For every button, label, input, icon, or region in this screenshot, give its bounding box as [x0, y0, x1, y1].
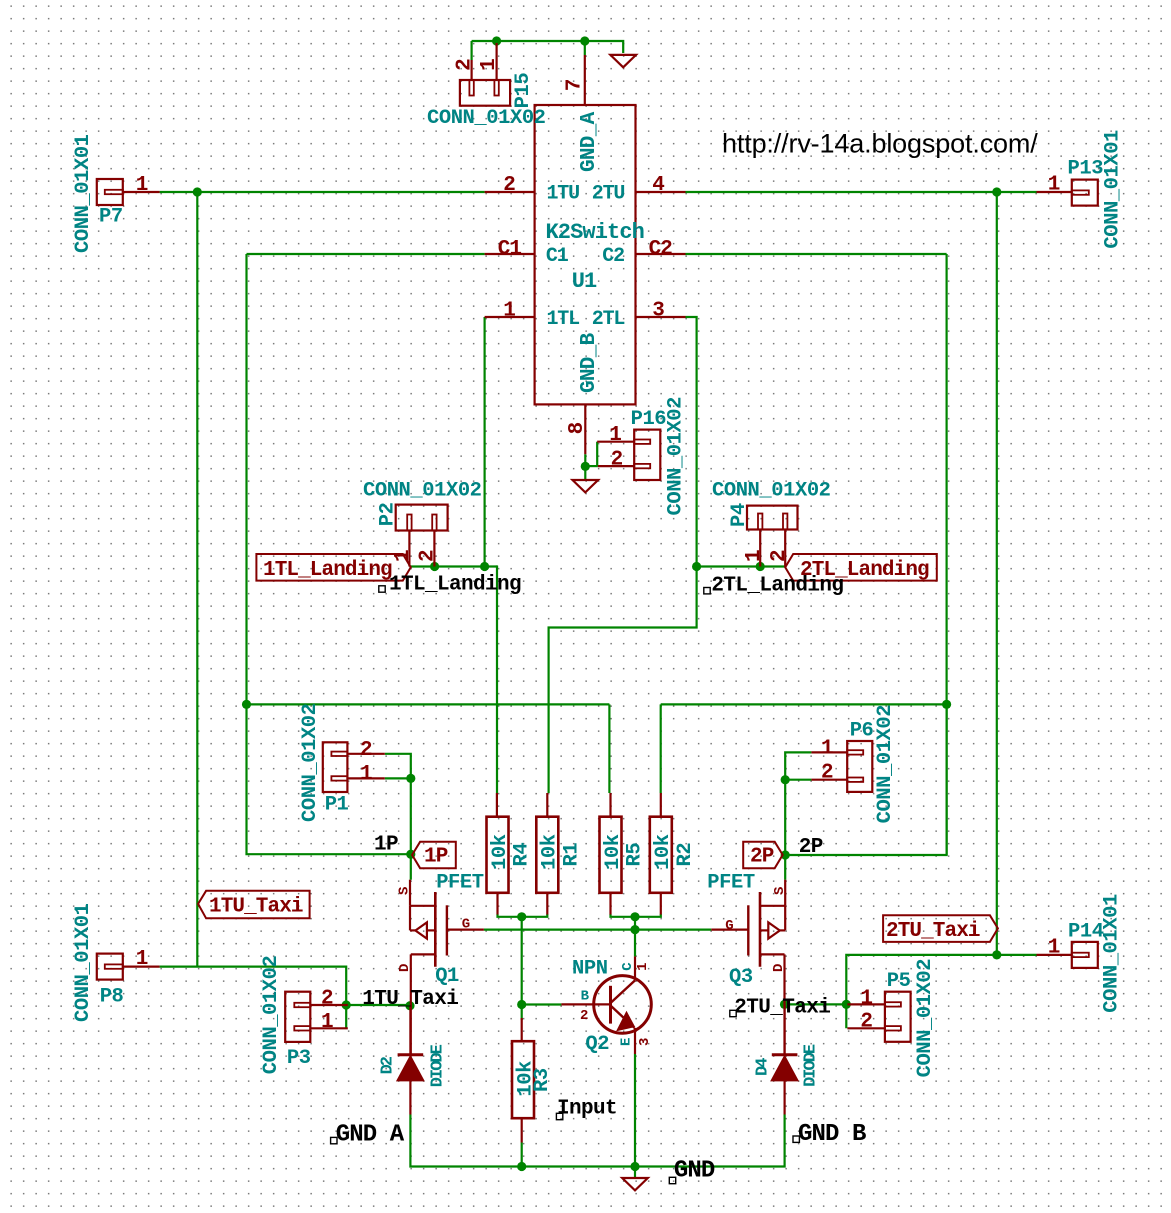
svg-text:Q3: Q3 — [729, 966, 753, 989]
junction 2TL at P4 wire — [692, 562, 701, 571]
wire pin7 stub — [584, 41, 586, 55]
svg-text:Q1: Q1 — [435, 965, 459, 988]
P8 pin 1 line — [123, 965, 160, 967]
wire net 1P horizontal C1-R5 — [247, 703, 610, 705]
svg-text:NPN: NPN — [572, 958, 608, 981]
svg-text:1: 1 — [136, 948, 148, 971]
junction 2TU_Taxi at P5 pin1 — [842, 1000, 851, 1009]
svg-text:http://rv-14a.blogspot.com/: http://rv-14a.blogspot.com/ — [722, 129, 1038, 159]
connector P6 body — [847, 741, 872, 792]
global label 2P — [743, 842, 783, 868]
svg-text:CONN_01X01: CONN_01X01 — [1102, 130, 1125, 249]
wire net C1 horizontal — [247, 253, 485, 255]
resistor R4 — [487, 817, 509, 893]
junction 1TU at P7 branch — [193, 187, 202, 196]
svg-text:2TU_Taxi: 2TU_Taxi — [734, 997, 830, 1020]
svg-text:CONN_01X01: CONN_01X01 — [72, 903, 95, 1022]
svg-text:CONN_01X02: CONN_01X02 — [874, 705, 897, 824]
wire U1 pin8 to ground — [584, 454, 586, 480]
svg-text:10k: 10k — [652, 834, 675, 870]
svg-text:P16: P16 — [631, 408, 667, 431]
svg-text:1P: 1P — [374, 834, 398, 857]
svg-text:1: 1 — [743, 550, 766, 562]
wire net 2P R2 drop — [660, 704, 662, 793]
wire net 1TL down to R4 — [496, 567, 498, 794]
P3 pin 1 line — [310, 1027, 348, 1029]
P3 pin bars — [294, 1003, 310, 1007]
junction 1TU_Taxi at P3 pin2 — [342, 1000, 351, 1009]
connector P8 body — [97, 954, 123, 980]
wire P16 pin1 link — [596, 442, 598, 466]
svg-text:2: 2 — [821, 762, 833, 785]
wire net 2TU vertical — [996, 192, 998, 955]
P1 pin bars — [331, 752, 347, 756]
svg-text:1: 1 — [321, 1011, 333, 1034]
resistor R2 — [650, 817, 672, 893]
svg-text:R4: R4 — [511, 843, 534, 867]
wire net C2 vertical — [945, 254, 947, 855]
svg-text:C2: C2 — [602, 245, 624, 268]
svg-text:1: 1 — [860, 988, 872, 1011]
wire net 1TU_Taxi bottom left — [160, 967, 347, 1029]
U1 pin C1 — [485, 253, 535, 255]
P3 pin 2 line — [310, 1004, 348, 1006]
R1 top lead — [546, 793, 548, 817]
svg-text:1: 1 — [503, 300, 515, 323]
wire top P15 to ground — [472, 41, 624, 53]
P2 pin 2 line — [433, 531, 435, 567]
svg-text:C1: C1 — [498, 238, 522, 261]
svg-text:GND A: GND A — [336, 1122, 405, 1149]
svg-text:D2: D2 — [378, 1056, 397, 1074]
svg-text:1TL: 1TL — [547, 308, 580, 331]
connector P5 body — [885, 992, 911, 1042]
junction P6 pin2 — [781, 775, 790, 784]
svg-text:C2: C2 — [649, 238, 673, 261]
wire net 1P R5 drop — [608, 704, 610, 793]
wire 1TU_Taxi to Q1 drain — [346, 1004, 409, 1006]
junction gate at Q2 collector column — [630, 925, 639, 934]
U1 pin 7 — [584, 55, 586, 105]
svg-text:1TU_Taxi: 1TU_Taxi — [362, 988, 458, 1011]
junction Q3 drain node — [780, 1000, 789, 1009]
svg-text:2: 2 — [580, 1008, 588, 1024]
svg-text:G: G — [462, 916, 470, 932]
svg-text:D: D — [771, 964, 787, 972]
svg-text:2: 2 — [360, 739, 372, 762]
P1 pin 2 line — [347, 753, 384, 755]
svg-text:GND_A: GND_A — [578, 111, 601, 172]
global label 2TL_Landing — [785, 554, 937, 581]
svg-text:DIODE: DIODE — [429, 1044, 448, 1087]
svg-text:GND: GND — [674, 1158, 715, 1185]
P16 pin 1 line — [597, 441, 634, 443]
svg-text:K2Switch: K2Switch — [546, 220, 644, 245]
svg-text:3: 3 — [652, 300, 664, 323]
U1 pin 4 — [636, 191, 686, 193]
svg-text:1: 1 — [635, 963, 651, 971]
wire net 2TU_Taxi top — [846, 955, 1036, 1028]
wire net 2P horizontal R2-C2 — [661, 703, 947, 705]
wire base node to Q2 — [522, 1003, 562, 1005]
connector P3 body — [285, 992, 310, 1042]
wire P6 pin1 link — [785, 752, 811, 879]
P5 pin 1 line — [847, 1003, 885, 1005]
svg-text:2: 2 — [454, 59, 477, 71]
R5 top lead — [609, 793, 611, 817]
svg-text:1: 1 — [136, 174, 148, 197]
wire net C2 horizontal — [686, 253, 947, 255]
junction node 1P — [406, 850, 415, 859]
P4 pin bars — [758, 514, 762, 530]
svg-text:R2: R2 — [674, 843, 697, 867]
transistor Q3 PFET — [711, 880, 785, 1055]
junction P1 pin1 — [406, 774, 415, 783]
junction 1TL at P2 pin2 — [430, 562, 439, 571]
global label 1TL_Landing — [256, 554, 410, 581]
P16 pin bars — [634, 440, 650, 444]
P6 pin 1 line — [811, 751, 847, 753]
connector P7 body — [97, 179, 123, 205]
svg-text:2: 2 — [611, 449, 623, 472]
U1 pin 3 — [636, 316, 686, 318]
P4 pin 1 line — [759, 530, 761, 567]
junction P15 pin1 — [492, 36, 501, 45]
connector P13 body — [1072, 180, 1098, 206]
junction Q1 drain node — [405, 1001, 414, 1010]
svg-text:R3: R3 — [531, 1068, 554, 1092]
svg-text:P14: P14 — [1068, 921, 1104, 944]
ground top — [610, 55, 636, 67]
svg-text:CONN_01X02: CONN_01X02 — [914, 959, 937, 1078]
junction R4R1 mid — [517, 912, 526, 921]
svg-text:3: 3 — [637, 1038, 653, 1046]
svg-text:2TL_Landing: 2TL_Landing — [711, 575, 843, 598]
ground at P16 — [573, 480, 599, 492]
diode D2 — [398, 1006, 424, 1115]
junction node 2P — [781, 850, 790, 859]
wire net 1TL vertical from U1 pin1 — [484, 317, 486, 567]
wire net 2P down-right column — [785, 704, 946, 855]
wire P1 pin1 link — [385, 777, 411, 779]
ground bottom — [622, 1178, 648, 1190]
R3 bottom lead — [521, 1118, 523, 1142]
transistor Q2 NPN — [561, 956, 651, 1054]
op-amp U1 K2Switch body — [535, 105, 636, 404]
global label 1TU_Taxi — [198, 891, 310, 919]
P14 pin 1 line — [1037, 954, 1072, 956]
svg-text:1P: 1P — [424, 846, 448, 869]
svg-text:P6: P6 — [850, 720, 874, 743]
U1 pin 1 — [485, 316, 535, 318]
wire Q2 emitter stub — [634, 1054, 636, 1167]
junction pin7 top — [580, 36, 589, 45]
svg-text:1TU: 1TU — [547, 183, 580, 206]
svg-text:1TU_Taxi: 1TU_Taxi — [209, 896, 303, 919]
P16 pin 2 line — [598, 465, 634, 467]
svg-text:1: 1 — [360, 763, 372, 786]
svg-text:G: G — [725, 918, 733, 934]
svg-text:P1: P1 — [325, 794, 349, 817]
R2 bottom lead — [660, 893, 662, 915]
wire gate bus Q1-Q3 — [484, 928, 711, 930]
svg-text:DIODE: DIODE — [802, 1044, 821, 1087]
junction 2TU at P13 branch — [992, 187, 1001, 196]
junction 1TL at U1 pin1 branch — [480, 562, 489, 571]
resistor R3 — [512, 1041, 534, 1118]
junction base node — [517, 1000, 526, 1009]
junction R5R2 mid — [630, 912, 639, 921]
svg-text:2P: 2P — [750, 846, 774, 869]
svg-text:1: 1 — [478, 59, 501, 71]
svg-text:8: 8 — [566, 422, 589, 434]
junction 2P at C2 column — [942, 700, 951, 709]
svg-text:P2: P2 — [377, 502, 400, 526]
junction 2TL at P4 pin1 — [756, 562, 765, 571]
wire net 1TU from P7 to U1 pin2 — [160, 191, 485, 193]
R3 top lead — [521, 1018, 523, 1041]
svg-text:1: 1 — [821, 738, 833, 761]
wire net 1TU vertical — [196, 192, 198, 967]
R5 bottom lead — [609, 893, 611, 915]
P13 pin 1 line — [1037, 191, 1072, 193]
svg-text:10k: 10k — [602, 834, 625, 870]
R2 top lead — [660, 793, 662, 817]
wire R5R2 to gate bus — [634, 917, 636, 957]
svg-text:P13: P13 — [1068, 158, 1104, 181]
svg-text:R5: R5 — [624, 843, 647, 867]
svg-text:E: E — [619, 1038, 635, 1046]
svg-text:R1: R1 — [560, 843, 583, 867]
svg-text:CONN_01X01: CONN_01X01 — [72, 134, 95, 253]
svg-text:4: 4 — [652, 174, 664, 197]
junction 1P at C1 column — [242, 700, 251, 709]
R4 top lead — [496, 793, 498, 817]
wire net 2TU from U1 pin4 to P13 — [686, 191, 1037, 193]
R4 bottom lead — [496, 893, 498, 915]
svg-text:CONN_01X02: CONN_01X02 — [427, 107, 546, 130]
svg-text:1: 1 — [1048, 174, 1060, 197]
wire R4R1 to base column — [521, 917, 523, 1020]
wire net 2TL from U1 pin3 — [549, 317, 697, 793]
connector P2 body — [396, 505, 448, 531]
wire R5-R2 bottoms — [611, 914, 661, 917]
svg-text:PFET: PFET — [707, 872, 755, 895]
P6 pin 2 line — [811, 779, 847, 781]
svg-text:1: 1 — [609, 424, 621, 447]
svg-text:1TL_Landing: 1TL_Landing — [263, 559, 392, 582]
junction pin8 ground — [581, 462, 590, 471]
resistor R5 — [600, 817, 622, 893]
P7 pin 1 line — [123, 191, 160, 193]
svg-text:10k: 10k — [489, 834, 512, 870]
svg-text:2: 2 — [768, 550, 791, 562]
U1 pin 8 — [584, 404, 586, 454]
svg-text:S: S — [397, 887, 413, 895]
svg-text:P7: P7 — [99, 206, 123, 229]
P5 pin 2 line — [847, 1027, 885, 1029]
connector P14 body — [1072, 942, 1098, 968]
svg-text:Q2: Q2 — [585, 1033, 609, 1056]
connector P15 body — [460, 80, 510, 106]
wire GND rail — [410, 1115, 784, 1167]
P15 pin 2 line — [471, 60, 473, 80]
svg-text:P15: P15 — [512, 73, 535, 109]
wire P15 pin2 stub — [471, 41, 473, 60]
wire R4-R1 bottoms — [498, 914, 548, 917]
global label 1P — [412, 842, 456, 868]
connector P4 body — [747, 506, 798, 530]
svg-text:P3: P3 — [287, 1047, 311, 1070]
P2 pin bars — [407, 515, 411, 531]
svg-text:CONN_01X02: CONN_01X02 — [665, 397, 688, 516]
wire Q3 drain to P5 — [785, 1003, 847, 1005]
svg-text:P4: P4 — [728, 503, 751, 527]
svg-text:7: 7 — [563, 79, 586, 91]
junction 2TU_Taxi at 2TU column — [992, 950, 1001, 959]
connector P16 body — [634, 430, 660, 480]
P5 pin bars — [885, 1002, 901, 1006]
wire GND symbol stub — [634, 1167, 636, 1179]
wire P16 pin2 link — [585, 465, 598, 467]
wire net 1TL horizontal at P2 — [409, 565, 497, 567]
svg-text:Input: Input — [557, 1098, 617, 1121]
svg-text:CONN_01X02: CONN_01X02 — [363, 480, 482, 503]
connector P1 body — [323, 742, 348, 792]
svg-text:U1: U1 — [572, 269, 597, 294]
svg-text:2TU: 2TU — [592, 183, 625, 206]
svg-text:CONN_01X02: CONN_01X02 — [712, 480, 831, 503]
wire net C1 vertical — [245, 254, 247, 704]
wire R3 bottom stub — [521, 1143, 523, 1167]
svg-text:2: 2 — [503, 174, 515, 197]
P1 pin 1 line — [347, 777, 384, 779]
junction GND at Q2 emitter — [630, 1162, 639, 1171]
R1 bottom lead — [546, 893, 548, 915]
svg-text:GND_B: GND_B — [578, 332, 601, 393]
svg-text:CONN_01X01: CONN_01X01 — [1101, 894, 1124, 1013]
svg-text:1TL_Landing: 1TL_Landing — [389, 574, 521, 597]
wire P6 pin2 link — [785, 779, 811, 781]
svg-text:2: 2 — [321, 988, 333, 1011]
svg-text:10k: 10k — [539, 834, 562, 870]
wire net 1P down-left column — [247, 704, 411, 854]
svg-text:2: 2 — [860, 1011, 872, 1034]
svg-text:P5: P5 — [887, 970, 911, 993]
wire net 2TL horizontal at P4 — [697, 565, 786, 567]
P4 pin 2 line — [784, 530, 786, 567]
svg-text:D4: D4 — [753, 1058, 772, 1076]
svg-text:2: 2 — [417, 550, 440, 562]
P2 pin 1 line — [408, 531, 410, 567]
svg-text:2TU_Taxi: 2TU_Taxi — [886, 920, 980, 943]
svg-text:1: 1 — [1048, 937, 1060, 960]
junction GND at R3 — [517, 1162, 526, 1171]
P6 pin bars — [847, 750, 863, 754]
U1 pin 2 — [485, 191, 535, 193]
svg-text:PFET: PFET — [436, 872, 484, 895]
svg-text:D: D — [397, 964, 413, 972]
svg-text:P8: P8 — [100, 986, 124, 1009]
svg-text:2TL: 2TL — [592, 308, 625, 331]
global label 2TU_Taxi — [883, 915, 998, 942]
svg-text:CONN_01X02: CONN_01X02 — [299, 703, 322, 822]
svg-text:GND B: GND B — [798, 1121, 866, 1148]
resistor R1 — [536, 817, 558, 893]
transistor Q1 PFET — [410, 880, 484, 1055]
P15 pin bars — [469, 80, 473, 96]
svg-text:S: S — [772, 887, 788, 895]
U1 pin C2 — [636, 253, 686, 255]
svg-text:2P: 2P — [799, 836, 823, 859]
svg-text:C1: C1 — [546, 245, 569, 268]
diode D4 — [772, 1004, 798, 1114]
P15 pin 1 line — [496, 43, 498, 80]
wire P1 pin2 link — [385, 754, 411, 880]
svg-text:CONN_01X02: CONN_01X02 — [260, 956, 283, 1075]
